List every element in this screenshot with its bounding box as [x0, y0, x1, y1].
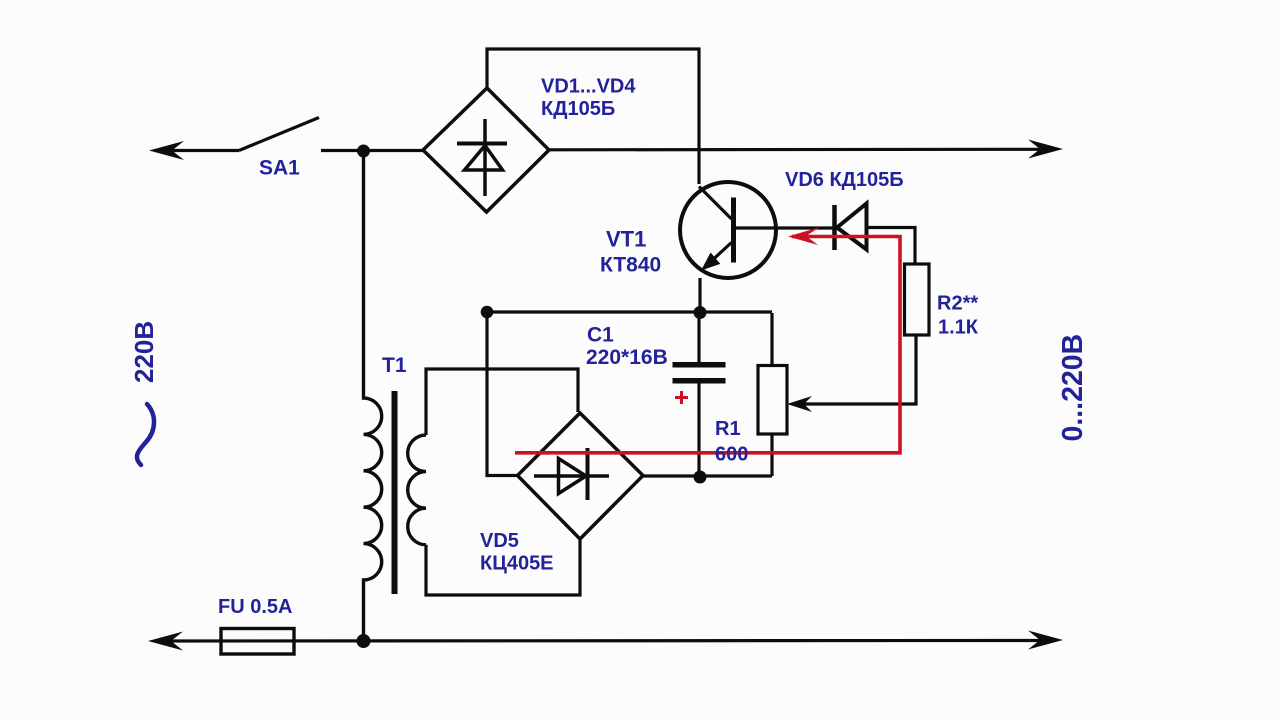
transformer T1 secondary bottom lead	[426, 540, 580, 595]
node mid left	[481, 306, 494, 319]
transformer T1 secondary winding top lead	[426, 369, 578, 435]
node top rail	[357, 145, 370, 158]
capacitor C1 top lead	[697, 312, 700, 362]
diode inside VD5	[534, 474, 609, 478]
wire R1 top lead	[770, 313, 773, 365]
arrow bottom-right	[1028, 631, 1063, 650]
transistor VT1 collector lead	[699, 187, 732, 220]
wire mid horizontal	[487, 310, 772, 313]
wire VD6 to R2	[868, 228, 915, 265]
svg-text:0...220В: 0...220В	[1057, 334, 1089, 442]
svg-text:КЦ405Е: КЦ405Е	[480, 553, 554, 575]
fuse FU	[221, 629, 294, 655]
transformer T1 core	[392, 391, 398, 594]
svg-text:600: 600	[715, 444, 748, 466]
resistor R2 body	[905, 264, 930, 335]
wire switch to bridge	[321, 149, 423, 152]
transistor VT1 emitter to node	[698, 278, 701, 313]
arrow top-left	[149, 141, 184, 160]
bridge rectifier VD1...VD4 diamond	[423, 88, 549, 212]
transformer T1 secondary winding	[408, 435, 426, 545]
svg-text:220*16В: 220*16В	[586, 346, 668, 369]
wire left vertical to VD5 left vertex	[487, 312, 518, 476]
svg-text:FU 0.5A: FU 0.5A	[218, 596, 292, 618]
diode inside VD1...VD4	[483, 119, 487, 196]
red control wire	[515, 237, 900, 453]
wire bridge top to transistor collector	[487, 49, 699, 184]
svg-text:1.1К: 1.1К	[938, 317, 979, 339]
capacitor C1 plus sign	[675, 396, 688, 399]
capacitor C1 bottom lead	[697, 384, 700, 478]
svg-text:VD1...VD4: VD1...VD4	[541, 76, 636, 98]
svg-text:КТ840: КТ840	[600, 254, 661, 277]
wire top rail left segment	[162, 149, 239, 152]
svg-text:R1: R1	[715, 418, 741, 440]
potentiometer R1 body	[758, 366, 787, 435]
svg-text:VD5: VD5	[480, 530, 519, 552]
svg-text:T1: T1	[382, 354, 407, 377]
wire base lead to VD6	[735, 226, 833, 229]
transistor VT1 circle	[680, 182, 776, 278]
arrow bottom-left	[148, 632, 183, 651]
red wire arrowhead	[788, 227, 820, 245]
svg-text:VD6 КД105Б: VD6 КД105Б	[785, 169, 904, 191]
transistor VT1 emitter arrowhead	[701, 253, 720, 271]
svg-text:КД105Б: КД105Б	[541, 98, 615, 120]
svg-text:SA1: SA1	[259, 157, 300, 180]
wire R2 to R1 wiper	[793, 335, 916, 404]
potentiometer R1 wiper arrowhead	[787, 396, 812, 412]
svg-text:VT1: VT1	[606, 227, 646, 252]
node bottom rail	[357, 634, 371, 648]
bridge rectifier VD5 diamond	[518, 413, 644, 539]
svg-text:C1: C1	[587, 324, 614, 347]
wire VD5 right vertex to R1 bottom	[643, 474, 772, 477]
node lower C1	[694, 471, 707, 484]
wire R1 bottom lead	[770, 434, 773, 476]
transistor VT1 emitter lead	[706, 243, 732, 267]
switch SA1 blade	[239, 118, 319, 151]
transistor VT1 base bar	[731, 198, 736, 263]
AC tilde symbol	[137, 404, 154, 465]
arrow top-right	[1028, 140, 1063, 159]
wire bottom rail	[160, 639, 1041, 643]
diode VD6 cathode bar	[832, 205, 837, 250]
diode VD6 triangle	[837, 204, 867, 250]
wire primary vertical + transformer T1 primary winding	[364, 151, 382, 641]
wire top rail right segment	[549, 148, 1041, 152]
capacitor C1 plates	[673, 362, 726, 368]
svg-text:R2**: R2**	[937, 293, 978, 315]
svg-text:220В: 220В	[129, 321, 159, 383]
node mid C1	[694, 306, 707, 319]
